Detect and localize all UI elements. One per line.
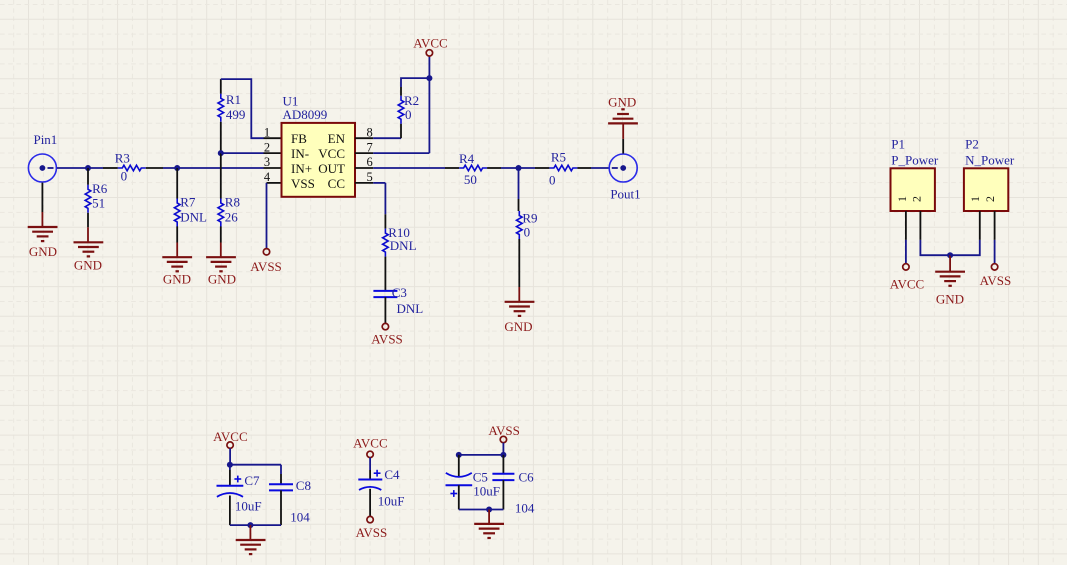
svg-text:AD8099: AD8099 (283, 107, 328, 122)
svg-text:IN-: IN- (291, 146, 309, 161)
svg-text:R6: R6 (92, 181, 108, 196)
svg-text:DNL: DNL (390, 238, 417, 253)
svg-text:Pout1: Pout1 (610, 187, 640, 202)
svg-text:GND: GND (163, 272, 191, 287)
svg-text:104: 104 (515, 501, 535, 516)
svg-text:R9: R9 (522, 210, 537, 225)
svg-text:C6: C6 (519, 470, 535, 485)
svg-text:6: 6 (366, 155, 372, 169)
svg-text:AVSS: AVSS (371, 332, 403, 347)
svg-text:U1: U1 (283, 93, 299, 108)
svg-text:AVCC: AVCC (413, 36, 447, 51)
svg-text:AVSS: AVSS (356, 525, 388, 540)
svg-text:7: 7 (366, 140, 372, 154)
svg-text:2: 2 (983, 196, 997, 202)
svg-text:26: 26 (225, 210, 239, 225)
svg-text:AVCC: AVCC (353, 435, 387, 450)
svg-text:1: 1 (895, 196, 909, 202)
svg-text:R3: R3 (115, 151, 130, 166)
svg-text:FB: FB (291, 131, 307, 146)
svg-text:AVSS: AVSS (980, 273, 1012, 288)
svg-text:R2: R2 (404, 93, 419, 108)
svg-text:R8: R8 (225, 194, 240, 209)
svg-text:AVSS: AVSS (250, 259, 282, 274)
svg-text:DNL: DNL (180, 210, 207, 225)
svg-text:0: 0 (405, 107, 412, 122)
svg-text:C8: C8 (296, 478, 311, 493)
svg-text:499: 499 (226, 107, 246, 122)
svg-text:0: 0 (121, 169, 128, 184)
svg-text:P2: P2 (965, 136, 979, 151)
svg-text:GND: GND (29, 244, 57, 259)
svg-text:P_Power: P_Power (891, 152, 939, 167)
svg-text:R7: R7 (180, 194, 196, 209)
svg-text:R5: R5 (551, 150, 566, 165)
svg-text:C7: C7 (244, 473, 260, 488)
svg-text:0: 0 (549, 173, 556, 188)
svg-text:VSS: VSS (291, 176, 315, 191)
svg-text:8: 8 (366, 125, 372, 139)
svg-text:104: 104 (290, 510, 310, 525)
svg-text:10uF: 10uF (473, 484, 500, 499)
svg-text:10uF: 10uF (378, 494, 405, 509)
svg-text:OUT: OUT (318, 161, 345, 176)
svg-text:C3: C3 (392, 285, 407, 300)
svg-text:R4: R4 (459, 151, 475, 166)
svg-text:GND: GND (936, 292, 964, 307)
svg-text:N_Power: N_Power (965, 152, 1015, 167)
svg-text:Pin1: Pin1 (33, 132, 57, 147)
svg-text:10uF: 10uF (235, 498, 262, 513)
svg-text:CC: CC (328, 176, 345, 191)
svg-text:VCC: VCC (318, 146, 345, 161)
svg-text:IN+: IN+ (291, 161, 312, 176)
svg-text:GND: GND (208, 272, 236, 287)
svg-text:P1: P1 (891, 136, 905, 151)
svg-text:GND: GND (504, 319, 532, 334)
svg-text:AVCC: AVCC (890, 276, 924, 291)
svg-text:2: 2 (264, 140, 270, 154)
svg-text:C4: C4 (384, 467, 400, 482)
svg-text:DNL: DNL (397, 301, 424, 316)
svg-text:GND: GND (74, 258, 102, 273)
svg-text:0: 0 (524, 224, 531, 239)
svg-text:R1: R1 (226, 92, 241, 107)
svg-text:C5: C5 (473, 470, 488, 485)
svg-text:50: 50 (464, 172, 477, 187)
svg-text:2: 2 (910, 196, 924, 202)
svg-text:3: 3 (264, 155, 270, 169)
svg-text:1: 1 (264, 125, 270, 139)
svg-text:4: 4 (264, 170, 271, 184)
svg-text:GND: GND (608, 95, 636, 110)
svg-text:EN: EN (328, 131, 346, 146)
svg-text:1: 1 (968, 196, 982, 202)
svg-text:51: 51 (92, 196, 105, 211)
